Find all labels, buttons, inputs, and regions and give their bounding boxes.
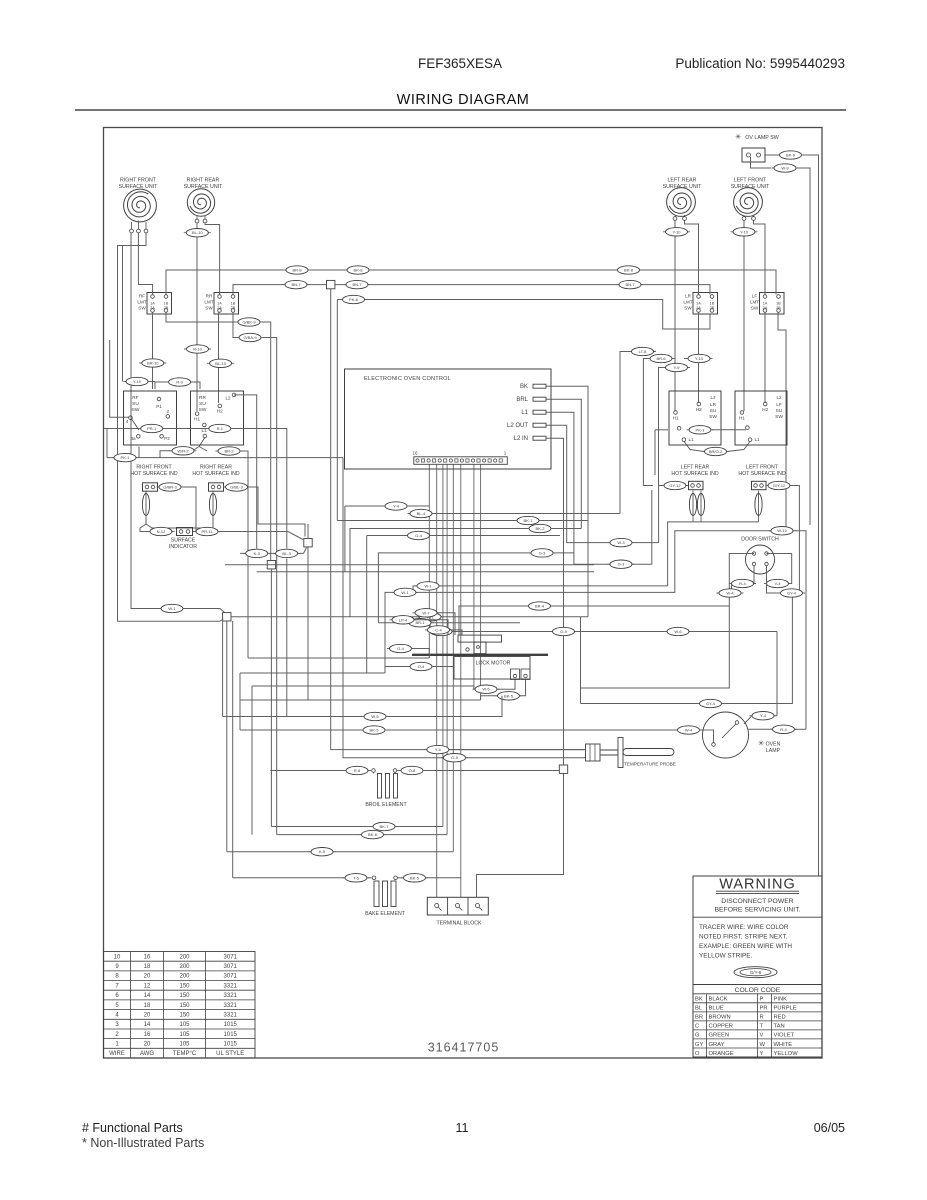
svg-text:1: 1 xyxy=(504,451,507,456)
wire xyxy=(632,486,664,543)
svg-text:200: 200 xyxy=(179,954,190,960)
svg-text:LF: LF xyxy=(776,402,782,408)
svg-text:BROIL ELEMENT: BROIL ELEMENT xyxy=(365,802,407,808)
switch arm LF xyxy=(744,441,750,449)
underline WARNING xyxy=(716,890,799,892)
svg-text:N-12: N-12 xyxy=(157,529,166,534)
svg-text:2: 2 xyxy=(115,1032,119,1038)
relay output stub L2 IN xyxy=(533,436,546,440)
wire xyxy=(166,313,242,323)
svg-text:L1: L1 xyxy=(688,437,694,442)
svg-text:RR: RR xyxy=(199,395,206,401)
controller U1 electronic oven control xyxy=(345,369,552,469)
wire run 700 xyxy=(240,699,481,701)
svg-text:W-3: W-3 xyxy=(617,540,625,545)
connector GY-4 xyxy=(697,699,724,707)
svg-text:6: 6 xyxy=(115,993,119,999)
wire xyxy=(239,673,241,730)
wire net BRL from control xyxy=(546,399,581,528)
wire xyxy=(197,216,205,219)
svg-text:BL-4: BL-4 xyxy=(417,511,426,516)
svg-text:T-5: T-5 xyxy=(353,875,360,880)
svg-text:Y-5: Y-5 xyxy=(435,747,442,752)
wire net bus BK-8 xyxy=(166,270,776,295)
wire xyxy=(654,430,656,475)
connector PK-1 xyxy=(112,453,139,461)
svg-text:DOOR SWITCH: DOOR SWITCH xyxy=(741,537,779,543)
svg-text:BK: BK xyxy=(695,997,703,1003)
wire xyxy=(450,630,463,635)
svg-text:1B: 1B xyxy=(710,302,715,306)
wire xyxy=(160,451,171,458)
wire xyxy=(426,877,461,879)
connector BN-7 xyxy=(283,280,310,288)
wire xyxy=(138,447,140,458)
terminal H2 LF switch xyxy=(763,402,767,406)
svg-text:W-7: W-7 xyxy=(422,610,430,615)
switch LF surface unit infinite switch xyxy=(735,391,787,445)
connector PR-1 xyxy=(138,424,165,432)
connector G/BL-3 xyxy=(223,483,250,491)
terminal H2 LR switch xyxy=(697,402,701,406)
connector J1 terminal strip electronic oven control xyxy=(414,457,508,465)
svg-text:PK-1: PK-1 xyxy=(121,455,131,460)
svg-text:1: 1 xyxy=(115,1042,119,1048)
heating element left rear surface unit xyxy=(669,193,691,213)
wire xyxy=(431,622,520,624)
connector BK-1 xyxy=(515,516,542,524)
svg-text:GY-4: GY-4 xyxy=(706,701,716,706)
wire xyxy=(749,728,773,730)
svg-text:YELLOW STRIPE.: YELLOW STRIPE. xyxy=(699,953,752,960)
svg-text:LEFT FRONT: LEFT FRONT xyxy=(734,178,767,184)
connector BL-10 xyxy=(207,359,234,367)
svg-text:8: 8 xyxy=(115,974,119,980)
svg-text:4: 4 xyxy=(115,1013,119,1019)
svg-text:3: 3 xyxy=(115,1022,119,1028)
terminal pin right rear surface unit 1 xyxy=(195,219,199,223)
svg-text:LT-8: LT-8 xyxy=(639,349,647,354)
connector GY-4 xyxy=(428,627,455,635)
svg-text:COPPER: COPPER xyxy=(709,1024,733,1030)
connector R-9 xyxy=(166,378,193,386)
wire xyxy=(181,487,196,532)
svg-text:PK-1: PK-1 xyxy=(696,427,706,432)
svg-text:W-1: W-1 xyxy=(401,590,409,595)
connector V-4 xyxy=(764,579,791,587)
svg-text:20: 20 xyxy=(144,1042,151,1048)
svg-text:14: 14 xyxy=(144,993,151,999)
connector G/BR-3 xyxy=(157,483,184,491)
svg-text:AWG: AWG xyxy=(140,1051,154,1057)
connector W-9 xyxy=(772,164,799,172)
terminal pin left rear surface unit 1 xyxy=(673,217,677,221)
svg-text:Y-9: Y-9 xyxy=(674,365,681,370)
svg-text:SW: SW xyxy=(138,306,146,311)
svg-text:1B: 1B xyxy=(231,302,236,306)
wire xyxy=(474,686,475,689)
connector C-4 xyxy=(425,626,452,634)
svg-text:T: T xyxy=(760,1024,764,1030)
connector R-10 xyxy=(184,345,211,353)
svg-text:2B: 2B xyxy=(164,306,169,310)
svg-text:* Non-Illustrated Parts: * Non-Illustrated Parts xyxy=(82,1136,204,1150)
connector W-1 xyxy=(415,582,442,590)
wire xyxy=(438,907,482,911)
svg-text:Y-4: Y-4 xyxy=(393,504,400,509)
terminal P2 RF switch xyxy=(160,435,164,439)
connector W-5 xyxy=(362,712,389,720)
svg-text:3321: 3321 xyxy=(224,1003,238,1009)
svg-text:GY-12: GY-12 xyxy=(669,483,681,488)
svg-text:BL-10: BL-10 xyxy=(192,230,203,235)
wire RF limit to RF switch xyxy=(152,313,154,390)
lamp oven lamp xyxy=(703,712,749,758)
wire xyxy=(412,649,430,659)
wire xyxy=(251,686,253,835)
svg-text:Y: Y xyxy=(760,1051,764,1057)
wire xyxy=(437,613,455,635)
connector BK-6 xyxy=(359,830,386,838)
svg-text:O-4: O-4 xyxy=(418,664,425,669)
svg-text:LF: LF xyxy=(752,294,758,299)
svg-text:W-12: W-12 xyxy=(777,528,787,533)
relay output stub L1 xyxy=(533,410,546,414)
terminal block lug 2 xyxy=(456,904,460,908)
connector BK-5 xyxy=(401,874,428,882)
wire right front pin 2 run xyxy=(138,233,152,295)
heating element right rear surface unit xyxy=(190,194,211,213)
svg-text:BAKE ELEMENT: BAKE ELEMENT xyxy=(365,911,406,917)
connector W-5 xyxy=(473,685,500,693)
connector BK-8 xyxy=(615,266,642,274)
wire run 553 xyxy=(240,552,304,554)
connector LP-4 xyxy=(390,616,417,624)
wire xyxy=(397,770,401,772)
wire xyxy=(343,458,444,758)
motor M1 lock motor xyxy=(458,635,502,642)
wire net P bus right xyxy=(655,429,668,431)
wire xyxy=(106,429,108,458)
wire xyxy=(414,620,448,635)
connector BK-9 xyxy=(777,151,804,159)
svg-text:105: 105 xyxy=(179,1022,190,1028)
wire xyxy=(675,215,685,217)
wire net W-1 xyxy=(231,616,588,618)
svg-text:W-5: W-5 xyxy=(482,687,490,692)
svg-text:LAMP: LAMP xyxy=(766,748,781,754)
svg-text:PURPLE: PURPLE xyxy=(774,1006,797,1012)
wire xyxy=(270,770,346,772)
connector BR-8 xyxy=(284,266,311,274)
wire xyxy=(191,382,200,389)
connector R-8 xyxy=(344,766,371,774)
terminal pin right front surface unit 2 xyxy=(137,229,141,233)
switch RF limit switch xyxy=(147,293,172,315)
svg-text:BR-10: BR-10 xyxy=(147,361,159,366)
wire xyxy=(155,382,168,389)
connector W-12 xyxy=(769,527,796,535)
connector BL-3 xyxy=(273,549,300,557)
svg-text:PINK: PINK xyxy=(774,997,788,1003)
wire net long run 631 xyxy=(430,631,777,633)
terminal P LR switch xyxy=(677,426,681,430)
svg-text:UL STYLE: UL STYLE xyxy=(216,1051,244,1057)
svg-text:06/05: 06/05 xyxy=(814,1121,845,1135)
svg-text:316417705: 316417705 xyxy=(428,1041,500,1055)
svg-text:SW: SW xyxy=(199,407,207,413)
wire xyxy=(378,622,409,624)
svg-text:WHITE: WHITE xyxy=(774,1042,793,1048)
terminal lock motor cam 2 xyxy=(477,646,480,649)
connector Y-9 xyxy=(663,363,690,371)
svg-text:18: 18 xyxy=(144,1003,151,1009)
sensor temperature probe xyxy=(586,744,601,761)
lamp left rear hot surface indicator 1 xyxy=(689,491,696,523)
svg-text:BK-5: BK-5 xyxy=(504,693,514,698)
svg-text:G/BA-9: G/BA-9 xyxy=(243,335,257,340)
svg-text:BK-8: BK-8 xyxy=(624,268,634,273)
wire left rear pin 2 run xyxy=(685,221,699,295)
lamp left rear hot surface indicator 2 xyxy=(697,491,704,523)
connector G-3 xyxy=(529,549,556,557)
svg-text:G-3: G-3 xyxy=(539,550,546,555)
connector W-4 xyxy=(717,589,744,597)
connector example G/Y-8 xyxy=(734,967,777,978)
wire xyxy=(222,617,224,717)
connector K-3 xyxy=(243,549,270,557)
svg-text:200: 200 xyxy=(179,974,190,980)
svg-text:10: 10 xyxy=(114,954,121,960)
wire xyxy=(539,520,588,522)
wire lamps bus xyxy=(692,521,759,523)
terminal pin right front surface unit 1 xyxy=(130,229,134,233)
svg-text:BR-8: BR-8 xyxy=(292,268,302,273)
wire LF limit to LF switch xyxy=(764,313,766,404)
svg-text:7: 7 xyxy=(115,983,119,989)
wire xyxy=(520,680,526,696)
svg-text:EXAMPLE: GREEN WIRE WITH: EXAMPLE: GREEN WIRE WITH xyxy=(699,943,792,950)
terminal P1 RF switch xyxy=(157,397,161,401)
switch S1 door switch xyxy=(746,545,775,574)
connector O-8 xyxy=(399,766,426,774)
svg-text:3071: 3071 xyxy=(224,954,238,960)
connector G/Y-12 xyxy=(766,481,793,489)
svg-text:16: 16 xyxy=(144,954,151,960)
connector G-4 xyxy=(405,531,432,539)
svg-text:RED: RED xyxy=(774,1015,786,1021)
svg-text:L2: L2 xyxy=(776,395,782,400)
connector N-12 xyxy=(148,527,175,535)
terminal pin right front surface unit 3 xyxy=(144,229,148,233)
svg-text:16: 16 xyxy=(144,1032,151,1038)
terminal L2 RR switch xyxy=(232,393,236,397)
svg-text:1A: 1A xyxy=(150,302,155,306)
connector BN-7 xyxy=(617,280,644,288)
svg-text:TRACER WIRE: WIRE COLOR: TRACER WIRE: WIRE COLOR xyxy=(699,924,789,931)
wire xyxy=(744,716,752,724)
svg-text:SW: SW xyxy=(709,414,717,420)
wire xyxy=(233,313,242,338)
svg-text:L2: L2 xyxy=(225,396,231,401)
connector W-1 xyxy=(417,613,444,621)
terminal oven lamp switch 2 xyxy=(757,153,761,157)
wire xyxy=(140,524,150,532)
svg-text:SU: SU xyxy=(199,401,206,407)
wire xyxy=(146,519,213,529)
wire xyxy=(712,429,746,431)
wire xyxy=(367,535,407,537)
wire xyxy=(731,584,733,594)
svg-text:9: 9 xyxy=(115,964,119,970)
svg-text:16: 16 xyxy=(412,451,418,456)
wire run 506 xyxy=(345,505,429,507)
connector GY-12 xyxy=(662,481,689,489)
terminal 2 RF switch xyxy=(166,415,170,419)
wire xyxy=(384,834,448,836)
svg-text:O-9: O-9 xyxy=(560,629,567,634)
svg-text:DISCONNECT POWER: DISCONNECT POWER xyxy=(721,898,793,905)
wire to temperature probe xyxy=(331,289,586,750)
svg-text:LMT: LMT xyxy=(750,300,759,305)
svg-text:W-1: W-1 xyxy=(424,583,432,588)
wire door switch terminal 3 xyxy=(753,566,755,584)
wire net PK-6 xyxy=(337,300,710,330)
connector Y-10 xyxy=(731,228,758,236)
connector Y-4 xyxy=(383,502,410,510)
wire net under switches xyxy=(107,457,343,459)
connector BK-7 xyxy=(371,822,398,830)
connector K-5 xyxy=(309,848,336,856)
svg-text:G/Y-8: G/Y-8 xyxy=(750,970,762,975)
svg-text:2A: 2A xyxy=(763,306,768,310)
svg-text:L2 OUT: L2 OUT xyxy=(507,423,528,429)
svg-text:✳: ✳ xyxy=(735,133,741,141)
heating element bake element xyxy=(374,881,379,907)
svg-text:G/BK-9: G/BK-9 xyxy=(242,320,256,325)
svg-text:Y-10: Y-10 xyxy=(672,229,681,234)
connector O-4 xyxy=(408,662,435,670)
svg-text:H2: H2 xyxy=(696,407,702,412)
terminal P LF switch xyxy=(746,426,750,430)
wire xyxy=(459,606,528,635)
terminal broil element 2 xyxy=(393,769,397,773)
wire run 572 xyxy=(257,571,594,573)
wire xyxy=(148,381,155,383)
heating element right front surface unit xyxy=(128,192,151,217)
terminal pin left rear surface unit 2 xyxy=(683,217,687,221)
heating element left front surface unit xyxy=(736,193,758,213)
indicator left front hot surface xyxy=(752,481,767,489)
wire door switch terminal 1 xyxy=(581,554,755,689)
svg-text:BR-6: BR-6 xyxy=(656,356,666,361)
svg-text:12: 12 xyxy=(144,983,151,989)
connector BR-10 xyxy=(139,359,166,367)
wire xyxy=(350,529,529,617)
connector W-1 xyxy=(392,588,419,596)
svg-text:H1: H1 xyxy=(739,416,745,421)
svg-text:L1: L1 xyxy=(521,410,528,416)
svg-text:O-8: O-8 xyxy=(409,768,416,773)
wire xyxy=(240,729,363,731)
wire xyxy=(199,447,207,452)
connector Y-10 xyxy=(686,354,713,362)
terminal H1 LR switch xyxy=(674,411,678,415)
connector G/BA-9 xyxy=(237,333,264,341)
svg-text:2B: 2B xyxy=(710,306,715,310)
svg-text:LR: LR xyxy=(710,402,717,408)
wire left front pin 2 run xyxy=(754,221,766,295)
svg-text:G/Y-12: G/Y-12 xyxy=(773,483,786,488)
wire xyxy=(423,770,559,772)
wire xyxy=(344,506,346,572)
svg-text:VIOLET: VIOLET xyxy=(774,1033,795,1039)
svg-text:H1: H1 xyxy=(673,416,679,421)
terminal H1 RR switch xyxy=(195,412,199,416)
svg-text:BR/O-2: BR/O-2 xyxy=(709,449,723,454)
svg-text:RR: RR xyxy=(206,294,213,299)
svg-text:G/BR-3: G/BR-3 xyxy=(163,485,177,490)
svg-text:SW: SW xyxy=(684,306,692,311)
wire xyxy=(336,300,338,521)
warning box xyxy=(693,876,822,1057)
svg-text:OV LAMP SW: OV LAMP SW xyxy=(745,135,778,141)
svg-text:GY-4: GY-4 xyxy=(787,591,797,596)
switch RR surface unit infinite switch xyxy=(191,391,244,445)
terminal oven lamp 1 xyxy=(735,721,739,725)
relay output stub BRL xyxy=(533,397,546,401)
connector LT-8 xyxy=(629,347,656,355)
junction splice top bus xyxy=(327,280,335,288)
svg-text:SURFACE UNIT: SURFACE UNIT xyxy=(731,184,771,190)
svg-text:HOT SURFACE IND: HOT SURFACE IND xyxy=(130,471,177,477)
wire xyxy=(481,696,498,700)
svg-text:V: V xyxy=(760,1033,764,1039)
connector G-3 xyxy=(608,560,635,568)
svg-text:1A: 1A xyxy=(763,302,768,306)
connector PK-6 xyxy=(340,295,367,303)
terminal lock motor cam xyxy=(466,648,469,651)
svg-text:2B: 2B xyxy=(776,306,781,310)
wire xyxy=(398,877,404,879)
connector Y-10 xyxy=(663,228,690,236)
svg-text:SW: SW xyxy=(751,306,759,311)
svg-text:WIRING DIAGRAM: WIRING DIAGRAM xyxy=(397,92,530,108)
terminal block lug 3 xyxy=(476,904,480,908)
terminal door switch 3 xyxy=(752,562,755,565)
wire xyxy=(132,221,147,230)
svg-text:150: 150 xyxy=(179,993,190,999)
svg-text:R: R xyxy=(760,1015,764,1021)
connector G/BK-9 xyxy=(236,318,263,326)
wire xyxy=(449,749,586,751)
switch SW1 oven lamp switch xyxy=(742,148,765,162)
svg-text:RF: RF xyxy=(139,294,145,299)
wire xyxy=(367,877,372,879)
wire net bus BN-7 xyxy=(233,285,710,295)
svg-text:G/BL-3: G/BL-3 xyxy=(230,485,243,490)
svg-text:Publication No: 5995440293: Publication No: 5995440293 xyxy=(675,56,845,71)
svg-text:2B: 2B xyxy=(231,306,236,310)
terminal door switch 2 xyxy=(765,552,768,555)
wire xyxy=(774,715,777,717)
svg-text:LR: LR xyxy=(685,294,692,299)
svg-text:BK-8: BK-8 xyxy=(354,268,364,273)
svg-text:Y-10: Y-10 xyxy=(740,229,749,234)
svg-text:LEFT REAR: LEFT REAR xyxy=(681,465,710,471)
connector O-5 xyxy=(441,754,468,762)
svg-text:3321: 3321 xyxy=(224,993,238,999)
